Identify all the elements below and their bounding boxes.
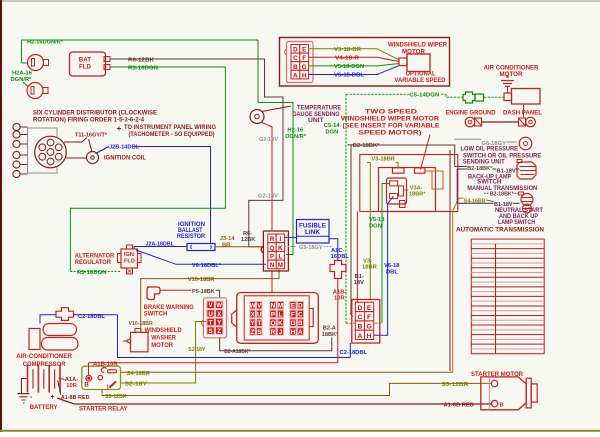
- svg-text:AIR-CONDITIONER: AIR-CONDITIONER: [16, 354, 72, 360]
- starter nose: [531, 384, 537, 402]
- relay G element: [101, 368, 106, 373]
- svg-text:C5-14DGN: C5-14DGN: [409, 93, 439, 99]
- wire B1-18V red vertical to connector D: [356, 212, 358, 303]
- wire V6-18-DBL: [309, 66, 399, 75]
- svg-text:LOW OIL PRESSURE: LOW OIL PRESSURE: [461, 146, 519, 152]
- svg-text:BRAKE WARNING: BRAKE WARNING: [144, 305, 194, 311]
- svg-text:N: N: [270, 262, 275, 269]
- svg-text:G5-18GY: G5-18GY: [299, 245, 323, 251]
- connector V-Z: [207, 301, 223, 335]
- wire V6-18DBL* to bulkhead N: [136, 250, 266, 264]
- svg-text:A1A-: A1A-: [65, 377, 79, 383]
- svg-text:ROTATION) FIRING ORDER 1-5-3: ROTATION) FIRING ORDER 1-5-3-6-2-4: [33, 118, 145, 124]
- windshield washer motor body: [131, 332, 149, 352]
- starter motor inner line: [488, 377, 490, 410]
- spark plug terminal circles: [13, 123, 20, 130]
- svg-text:Q: Q: [270, 245, 275, 252]
- svg-text:10R: 10R: [334, 295, 345, 301]
- svg-text:S5-12BR: S5-12BR: [105, 394, 127, 400]
- svg-text:B: B: [500, 402, 504, 408]
- inline connector C5: [463, 92, 475, 103]
- inset connector notch: [285, 49, 287, 55]
- wire V4-18-R: [309, 57, 399, 61]
- svg-text:K: K: [278, 320, 283, 327]
- automatic transmission switch table: [471, 239, 544, 354]
- svg-text:B: B: [298, 320, 303, 327]
- svg-text:Z: Z: [217, 328, 221, 335]
- wire S5-12BR long run: [102, 383, 491, 395]
- svg-text:S4-18BR: S4-18BR: [127, 371, 151, 377]
- svg-text:A: A: [298, 329, 303, 336]
- svg-text:DBL: DBL: [386, 269, 398, 275]
- svg-text:H2A-16: H2A-16: [12, 71, 33, 77]
- connector R-M: [268, 234, 285, 269]
- wire V3A loop: [425, 171, 443, 189]
- svg-text:V5-18: V5-18: [369, 217, 385, 223]
- svg-text:IGN: IGN: [124, 252, 134, 258]
- svg-text:C5-14: C5-14: [324, 123, 341, 129]
- fusible link symbol: [330, 261, 346, 279]
- bulkhead left notch: [232, 310, 237, 327]
- compressor cylinder 2: [42, 338, 79, 351]
- engine ground symbol above AC motor: [501, 80, 514, 82]
- wire J2B-14DBL to ballast resistor: [135, 147, 211, 245]
- svg-text:VARIABLE SPEED: VARIABLE SPEED: [395, 77, 446, 84]
- regulator bottom tab: [127, 268, 133, 274]
- wire C5-14DGN dashed vertical: [345, 94, 347, 323]
- svg-text:UNIT: UNIT: [308, 118, 324, 124]
- svg-text:R6-: R6-: [243, 231, 252, 237]
- wire V10-18BR from bulkhead M to washer motor: [141, 269, 279, 332]
- svg-text:C2-18DBL: C2-18DBL: [340, 350, 368, 356]
- svg-text:B: B: [357, 324, 362, 331]
- dash panel lug symbol: [519, 118, 526, 126]
- svg-text:BAT: BAT: [79, 57, 91, 64]
- svg-text:V4-18-R: V4-18-R: [335, 56, 360, 62]
- svg-text:18BR: 18BR: [362, 265, 378, 271]
- svg-text:LAMP SWITCH: LAMP SWITCH: [498, 220, 535, 226]
- svg-text:C2-18DBL: C2-18DBL: [78, 314, 105, 320]
- battery ground symbol: [18, 393, 30, 395]
- svg-text:B1-: B1-: [355, 274, 364, 280]
- svg-text:Z: Z: [251, 329, 255, 336]
- svg-text:D: D: [293, 47, 298, 54]
- wire B2-A18BK from Z to bulkhead: [220, 338, 332, 351]
- svg-text:G: G: [366, 324, 371, 331]
- regulator top tab: [127, 245, 133, 249]
- svg-text:BR: BR: [222, 242, 231, 248]
- svg-text:WASHER: WASHER: [151, 336, 176, 342]
- svg-text:V6-18-DBL: V6-18-DBL: [334, 73, 364, 79]
- svg-text:V5-18-DGN: V5-18-DGN: [334, 64, 364, 70]
- fusible link box: [297, 220, 330, 244]
- wire J2B to coil: [96, 147, 110, 154]
- wire brake switch to P5 label: [160, 289, 191, 291]
- svg-text:AUTOMATIC TRANSMISSION: AUTOMATIC TRANSMISSION: [456, 227, 545, 234]
- svg-text:R: R: [271, 329, 276, 336]
- svg-text:ALTERNATOR: ALTERNATOR: [75, 253, 115, 259]
- wire S4 to starter relay: [453, 198, 464, 372]
- svg-text:J2B-14DBL: J2B-14DBL: [109, 144, 139, 150]
- wire P5-18BK to connector W: [216, 290, 220, 298]
- horn 2: [27, 83, 43, 99]
- svg-text:W: W: [216, 302, 222, 309]
- svg-text:U: U: [208, 311, 213, 318]
- svg-text:LINK: LINK: [305, 229, 321, 236]
- svg-text:R6-12BK: R6-12BK: [128, 57, 155, 63]
- horn 1: [28, 55, 44, 71]
- motor terminal 1: [393, 168, 405, 173]
- svg-text:SENDING UNIT: SENDING UNIT: [463, 160, 505, 166]
- pointer to temperature label: [262, 106, 291, 112]
- svg-text:P5-18BK: P5-18BK: [192, 289, 216, 295]
- svg-text:S2-18Y: S2-18Y: [188, 347, 205, 353]
- alternator BAT terminal: [104, 57, 110, 62]
- bulkhead connector inner: [244, 296, 309, 340]
- wire B2 into label: [455, 166, 467, 168]
- svg-text:STARTER RELAY: STARTER RELAY: [79, 405, 128, 412]
- wire C5 to AC motor: [484, 96, 504, 98]
- pointer battery to A1-8B: [58, 380, 61, 395]
- svg-text:MOTOR: MOTOR: [402, 48, 426, 55]
- back-up lamp switch symbol: [517, 162, 536, 179]
- connector D-H (wiper inset): [291, 45, 309, 80]
- wire V5-18DGN from motor down: [382, 184, 390, 324]
- two speed wiper motor box: [379, 168, 436, 212]
- wire V3-18-BR: [309, 49, 399, 60]
- wire distributor to tachometer: [64, 138, 87, 143]
- wire R3-16DGN from FLD to regulator: [70, 67, 225, 272]
- svg-text:A1-8B RED: A1-8B RED: [61, 395, 90, 401]
- svg-text:TWO SPEED: TWO SPEED: [365, 109, 417, 116]
- inline connector C2: [56, 308, 74, 321]
- svg-text:10R: 10R: [66, 383, 77, 389]
- inset connector shell: [287, 42, 314, 83]
- wire V5-18-DGN: [309, 64, 399, 66]
- svg-text:N: N: [271, 303, 276, 310]
- svg-text:T: T: [209, 319, 213, 326]
- temperature gauge sending unit: [250, 110, 264, 124]
- svg-text:A: A: [293, 72, 298, 79]
- wiper motor stub: [399, 58, 407, 66]
- svg-text:J: J: [279, 329, 283, 336]
- wire to horn 2: [23, 82, 31, 89]
- svg-text:IGNITION: IGNITION: [178, 222, 205, 228]
- battery ground lead: [22, 379, 28, 394]
- frame top edge: [0, 0, 600, 2]
- wire B2-18BK from bulkhead C to backup switch: [351, 145, 455, 313]
- compressor clutch housing: [29, 329, 40, 350]
- wire C2-18DBL long run: [118, 315, 351, 358]
- wire distributor to coil: [66, 157, 86, 159]
- wire H2 to bulkhead L: [258, 40, 293, 255]
- svg-text:F: F: [367, 314, 371, 321]
- svg-text:M: M: [278, 303, 283, 310]
- svg-text:I: I: [280, 236, 282, 243]
- relay contact arm: [110, 382, 117, 388]
- svg-text:R3-16DGN: R3-16DGN: [128, 65, 158, 71]
- distributor cap towers: [47, 139, 54, 146]
- distributor center tower: [47, 149, 54, 156]
- svg-text:WINDSHIELD WIPER MOTOR: WINDSHIELD WIPER MOTOR: [341, 116, 439, 123]
- pointer battery to A1A: [59, 378, 65, 380]
- svg-text:U: U: [257, 311, 262, 318]
- bulkhead right tab: [309, 308, 313, 326]
- regulator right tab: [138, 254, 142, 263]
- svg-text:K: K: [278, 245, 283, 252]
- wire I to fusible link: [285, 236, 297, 238]
- svg-text:FLD: FLD: [124, 259, 135, 265]
- bulkhead group WV-ZS: [250, 301, 263, 335]
- svg-text:A1-6B RED: A1-6B RED: [443, 402, 474, 408]
- svg-text:DGN/R*: DGN/R*: [285, 134, 307, 140]
- wire H2-16DGN/R horizontal run: [22, 40, 259, 63]
- svg-text:E: E: [291, 303, 295, 310]
- svg-text:H: H: [302, 72, 307, 79]
- relay B terminal: [86, 375, 92, 381]
- svg-text:W: W: [250, 303, 256, 310]
- svg-text:J3-14: J3-14: [220, 236, 236, 242]
- svg-text:H: H: [367, 333, 372, 340]
- distributor harness gray box: [28, 128, 58, 173]
- svg-text:DASH PANEL: DASH PANEL: [503, 110, 542, 116]
- wire V6-18DBL from motor to connector H: [374, 196, 394, 335]
- svg-text:18V: 18V: [354, 280, 364, 286]
- svg-text:+: +: [51, 394, 55, 401]
- ballast resistor body: [187, 244, 215, 251]
- wire S4-18BR long run: [121, 371, 453, 373]
- svg-text:G: G: [290, 320, 295, 327]
- svg-text:FLD: FLD: [79, 64, 92, 71]
- brake warning switch symbol: [147, 287, 160, 300]
- washer motor tab: [135, 329, 141, 333]
- wire red into bulkhead N: [271, 271, 273, 293]
- svg-text:V3-18-BR: V3-18-BR: [334, 47, 362, 53]
- svg-text:D: D: [357, 305, 362, 312]
- wire C2 compressor to connector: [40, 315, 56, 324]
- svg-text:18BK*: 18BK*: [322, 332, 339, 338]
- svg-text:H: H: [291, 329, 296, 336]
- svg-text:BALLAST: BALLAST: [178, 228, 203, 234]
- wire G6-18GY: [455, 138, 481, 140]
- wire B2 diagonal into C: [350, 313, 353, 317]
- wire C5-14DGN dashed horizontal: [346, 93, 409, 95]
- svg-text:H2-16DGN/R*: H2-16DGN/R*: [27, 40, 64, 46]
- svg-text:WINDSHIELD: WINDSHIELD: [145, 328, 183, 334]
- wire B1-18V stub: [457, 168, 467, 170]
- wire maroon right vertical: [449, 150, 451, 371]
- svg-text:A: A: [357, 333, 362, 340]
- pointer speed motor to box: [421, 135, 431, 170]
- neutral start and back up lamp switch symbol: [521, 194, 533, 206]
- svg-text:GAUGE SENDING: GAUGE SENDING: [292, 112, 340, 118]
- wire A1C-16DBL: [329, 239, 338, 261]
- svg-text:D: D: [298, 303, 303, 310]
- wiper motor inset box: [280, 38, 450, 87]
- svg-text:(SEE INSERT FOR VARIABLE: (SEE INSERT FOR VARIABLE: [343, 123, 441, 130]
- svg-text:SIX CYLINDER DISTRIBUTOR (CLOC: SIX CYLINDER DISTRIBUTOR (CLOCKWISE: [33, 111, 157, 117]
- svg-text:P: P: [270, 254, 274, 261]
- oil pressure switch symbol: [519, 137, 532, 150]
- battery plates: [27, 365, 29, 393]
- wire V3-18BR stub: [396, 163, 398, 168]
- svg-text:RESISTOR: RESISTOR: [177, 234, 206, 240]
- svg-text:DGN: DGN: [369, 223, 382, 229]
- svg-text:IGNITION COIL: IGNITION COIL: [104, 156, 146, 162]
- svg-text:R: R: [270, 236, 275, 243]
- wire T11 into coil: [89, 139, 93, 152]
- ground strap wire: [482, 121, 519, 123]
- wire AC motor to dash panel ground: [523, 104, 525, 117]
- svg-text:H2-16: H2-16: [287, 127, 304, 133]
- svg-text:E: E: [302, 47, 306, 54]
- motor inner connector: [387, 178, 407, 204]
- wire B1-18V violet vertical: [456, 169, 458, 203]
- svg-text:S5-12BR: S5-12BR: [442, 382, 470, 388]
- svg-text:V10-18BR: V10-18BR: [188, 277, 215, 283]
- svg-text:SWITCH: SWITCH: [144, 312, 168, 318]
- svg-text:V10-18BR: V10-18BR: [129, 321, 154, 327]
- svg-text:R3-16DGN: R3-16DGN: [77, 270, 107, 276]
- svg-text:B2-A18BK*: B2-A18BK*: [224, 349, 251, 355]
- bulkhead connector outer: [237, 293, 319, 344]
- svg-text:12BK: 12BK: [241, 237, 255, 243]
- svg-text:V3-18BR: V3-18BR: [372, 157, 396, 163]
- svg-text:F: F: [302, 55, 306, 62]
- wire A1B-10R long run: [89, 362, 338, 364]
- connector V-Z shell: [204, 298, 227, 338]
- bulkhead group NM-RJ: [270, 301, 284, 335]
- svg-text:G2-18V: G2-18V: [258, 194, 278, 200]
- svg-text:SPEED MOTOR): SPEED MOTOR): [359, 130, 422, 137]
- wire J3-14BR to bulkhead: [215, 246, 263, 248]
- wire C2 connector to run: [74, 314, 118, 316]
- motor terminal 2: [415, 168, 426, 173]
- svg-text:Q: Q: [270, 320, 275, 327]
- svg-text:J2A-18DBL: J2A-18DBL: [146, 241, 175, 247]
- svg-text:G2-18V: G2-18V: [259, 137, 278, 143]
- washer motor left connector: [126, 339, 131, 344]
- svg-text:G: G: [302, 64, 307, 71]
- wire J2A-18DBL: [134, 246, 187, 248]
- svg-text:BATTERY: BATTERY: [30, 404, 59, 411]
- svg-text:MOTOR: MOTOR: [500, 71, 524, 78]
- engine ground lug symbol: [465, 117, 475, 127]
- wire B1-18V to neutral switch: [457, 202, 493, 204]
- compressor cylinder 1: [43, 324, 77, 336]
- svg-text:V6-18DBL*: V6-18DBL*: [192, 263, 222, 269]
- starter B terminal: [491, 400, 497, 406]
- svg-text:E: E: [367, 305, 372, 312]
- wire V3-18BR vertical to connector E: [369, 163, 371, 301]
- svg-text:SWITCH: SWITCH: [477, 180, 501, 186]
- svg-text:B2-18BK*: B2-18BK*: [353, 143, 381, 149]
- bulkhead group ED-HA: [290, 301, 304, 335]
- svg-text:(TACHOMETER - SO EQUIPPED): (TACHOMETER - SO EQUIPPED): [129, 132, 215, 138]
- svg-text:ENGINE GROUND: ENGINE GROUND: [446, 110, 497, 116]
- svg-text:REGULATOR: REGULATOR: [75, 260, 112, 266]
- regulator left tab: [118, 254, 122, 263]
- connector D-H outer (lower): [352, 300, 380, 344]
- AC motor terminal: [504, 93, 512, 101]
- svg-text:F: F: [291, 311, 295, 318]
- ignition coil: [87, 152, 99, 164]
- wire S2-18Y connector T to starter relay: [121, 322, 207, 384]
- svg-text:B2-18BK*: B2-18BK*: [467, 166, 493, 172]
- air conditioner motor body: [512, 89, 541, 105]
- wire A1-6B RED long run: [57, 398, 491, 404]
- connector D-H lower: [355, 302, 373, 340]
- svg-text:S2-18Y: S2-18Y: [125, 381, 148, 387]
- connector R-M outer: [263, 231, 288, 271]
- wire G5-18GY dashes: [285, 246, 296, 248]
- wire R6-12BK from BAT to bulkhead Q: [110, 59, 283, 247]
- svg-text:B: B: [293, 64, 298, 71]
- svg-text:T11-16GY/T*: T11-16GY/T*: [75, 133, 108, 139]
- svg-text:MOTOR: MOTOR: [151, 343, 173, 349]
- alternator FLD terminal: [104, 65, 110, 70]
- svg-text:18BR*: 18BR*: [409, 192, 426, 198]
- wiper motor body: [407, 54, 430, 72]
- wire A1B-10R vertical: [337, 279, 339, 363]
- frame left edge: [0, 0, 2, 432]
- svg-text:TO INSTRUMENT PANEL WIRING: TO INSTRUMENT PANEL WIRING: [124, 125, 216, 131]
- frame bottom edge: [0, 430, 600, 432]
- svg-text:S: S: [209, 328, 213, 335]
- svg-text:B: B: [84, 383, 89, 389]
- svg-text:T: T: [257, 320, 261, 327]
- svg-text:V6-18: V6-18: [384, 263, 400, 269]
- svg-text:SWITCH OR OIL PRESSURE: SWITCH OR OIL PRESSURE: [463, 153, 541, 159]
- wire C2 up into connector A: [349, 343, 351, 358]
- wire C5 dashed bottom jog: [346, 322, 382, 324]
- svg-text:16DBL: 16DBL: [331, 254, 350, 260]
- starter motor body: [481, 377, 526, 410]
- svg-text:S: S: [257, 329, 261, 336]
- svg-text:C: C: [293, 55, 298, 62]
- svg-text:P: P: [271, 311, 275, 318]
- distributor cap: [35, 136, 67, 168]
- starter relay box: [82, 366, 121, 389]
- wire A1B into relay B: [88, 363, 90, 376]
- svg-text:TEMPERATURE: TEMPERATURE: [297, 106, 341, 112]
- svg-text:L: L: [279, 311, 283, 318]
- svg-text:B2-A: B2-A: [323, 326, 336, 332]
- svg-text:L: L: [278, 254, 282, 261]
- svg-text:C: C: [298, 311, 303, 318]
- regulator body: [121, 249, 138, 268]
- svg-text:B2-18BK*: B2-18BK*: [490, 191, 515, 197]
- alternator body: [70, 52, 106, 76]
- svg-text:DGN: DGN: [325, 130, 338, 136]
- svg-text:M: M: [278, 262, 283, 269]
- two speed motor enclosure: [360, 155, 458, 212]
- wire G2-18V red vertical: [261, 122, 272, 230]
- starter S terminal: [491, 380, 497, 386]
- svg-text:DGN/R*: DGN/R*: [11, 77, 33, 83]
- svg-text:C: C: [357, 314, 362, 321]
- starter nose plate: [526, 378, 531, 408]
- relay I terminal: [98, 375, 103, 380]
